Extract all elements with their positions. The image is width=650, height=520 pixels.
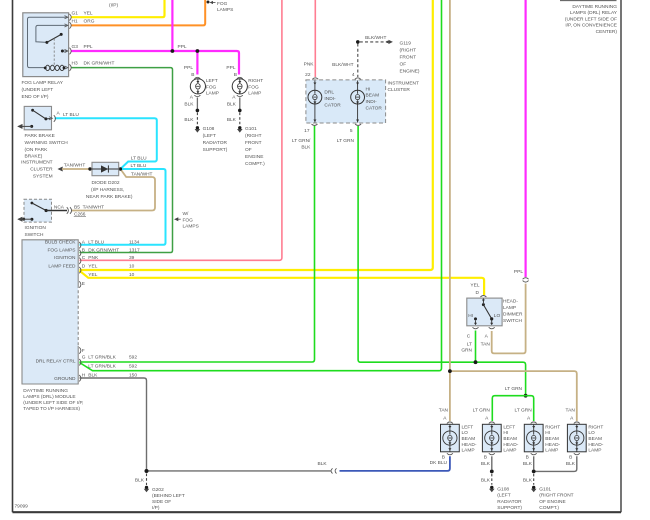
connector inline PPL/TAN: [523, 278, 529, 282]
svg-text:E: E: [82, 281, 85, 287]
svg-text:RIGHT: RIGHT: [545, 424, 560, 430]
svg-text:TAN/WHT: TAN/WHT: [64, 163, 86, 169]
wire LT BLU diode to module A: [80, 163, 166, 245]
svg-text:NCA: NCA: [54, 205, 65, 211]
ground G101 (headlamp): [531, 486, 574, 511]
svg-text:B: B: [526, 454, 529, 460]
svg-text:BEAM: BEAM: [588, 436, 602, 442]
svg-text:DK GRN/WHT: DK GRN/WHT: [84, 60, 115, 66]
connector C266 pin B5: [54, 205, 104, 218]
svg-text:LO: LO: [588, 430, 595, 436]
svg-text:G108: G108: [497, 486, 509, 492]
svg-text:G101: G101: [245, 126, 257, 132]
svg-text:LT BLU: LT BLU: [131, 155, 147, 161]
lamp LEFT HI BEAM HEADLAMP: [473, 408, 519, 461]
svg-text:DK GRN/WHT: DK GRN/WHT: [88, 247, 119, 253]
svg-text:22: 22: [305, 72, 311, 78]
svg-text:LT GRN: LT GRN: [515, 408, 533, 414]
ground G202: [144, 486, 185, 511]
wire BLK dashed to G202: [135, 474, 147, 486]
pin H1 connector: [65, 19, 95, 29]
svg-text:PPL: PPL: [178, 44, 187, 50]
wire LT GRN dimmer C to junction: [475, 331, 477, 363]
svg-text:SUPPORT): SUPPORT): [497, 505, 522, 511]
svg-text:LT GRN: LT GRN: [505, 386, 523, 392]
svg-text:WARNING SWITCH: WARNING SWITCH: [25, 140, 69, 146]
svg-text:H3: H3: [72, 60, 78, 66]
svg-text:PNK: PNK: [304, 62, 315, 68]
svg-text:IGNITION: IGNITION: [25, 225, 47, 231]
svg-text:1134: 1134: [129, 240, 140, 246]
svg-text:LT BLU: LT BLU: [131, 163, 147, 169]
svg-text:(I/P): (I/P): [109, 3, 118, 9]
svg-text:FRONT: FRONT: [400, 54, 417, 60]
svg-text:BLK: BLK: [318, 461, 328, 467]
svg-text:B: B: [484, 454, 487, 460]
svg-text:BEAM: BEAM: [462, 436, 476, 442]
svg-text:BEAM: BEAM: [366, 93, 380, 99]
svg-text:LT GRN/BLK: LT GRN/BLK: [88, 364, 116, 370]
node W/FOG LAMPS top annotation: [207, 1, 234, 13]
svg-text:1317: 1317: [129, 247, 140, 253]
node junction TAN lo-beam split: [448, 369, 452, 373]
label fog lamp relay: [22, 80, 64, 100]
switch S2 IGNITION SWITCH: [18, 199, 67, 222]
ground G108 (headlamp): [489, 486, 522, 511]
svg-text:TAN/WHT: TAN/WHT: [131, 172, 153, 178]
svg-text:LT GRN/BLK: LT GRN/BLK: [88, 355, 116, 361]
svg-text:BLK: BLK: [88, 372, 98, 378]
lamp DRL INDICATOR: [308, 81, 341, 123]
svg-text:PPL: PPL: [184, 65, 193, 71]
pin H3 connector: [65, 60, 115, 71]
splice BLK/DK BLU: [318, 461, 337, 474]
svg-text:TAN/WHT: TAN/WHT: [83, 205, 105, 211]
svg-text:I/P): I/P): [152, 505, 160, 511]
svg-text:LAMP: LAMP: [588, 448, 601, 454]
svg-text:LAMP: LAMP: [545, 448, 558, 454]
svg-text:C: C: [82, 255, 86, 261]
svg-text:YEL: YEL: [88, 264, 97, 270]
svg-text:LT GRN: LT GRN: [337, 138, 355, 144]
node junction LT GRN at dimmer C: [474, 360, 478, 364]
wire DK BLU left lo beam to splice: [340, 456, 450, 471]
svg-text:FOG: FOG: [206, 84, 217, 90]
svg-text:COMPT.): COMPT.): [245, 161, 265, 167]
svg-text:(UNDER LEFT SIDE OF: (UNDER LEFT SIDE OF: [565, 16, 617, 22]
svg-text:HEAD-: HEAD-: [503, 298, 518, 304]
wire LT GRN to right hi beam: [526, 396, 534, 421]
svg-text:39: 39: [129, 255, 135, 261]
ground G108 (fog): [195, 126, 228, 153]
svg-text:HEAD-: HEAD-: [462, 442, 477, 448]
svg-text:LAMP: LAMP: [503, 305, 516, 311]
module pin A: [79, 240, 139, 249]
wire YEL module D to dimmer switch: [80, 271, 485, 295]
cluster pin 4 connector: [355, 78, 361, 80]
wire LT GRN/BLK module G to top: [80, 0, 442, 371]
wire BLK/WHT cluster pin 4 to G119: [332, 35, 388, 78]
svg-text:C: C: [467, 334, 471, 340]
svg-text:5: 5: [350, 128, 353, 134]
svg-text:(LEFT: (LEFT: [203, 133, 216, 139]
svg-text:B: B: [569, 454, 572, 460]
svg-text:LO: LO: [494, 313, 501, 319]
wire LT BLU park brake to diode: [55, 112, 157, 169]
svg-text:DRL: DRL: [324, 90, 334, 96]
svg-text:BLK: BLK: [227, 102, 237, 108]
svg-text:D: D: [476, 290, 480, 296]
label DRL module: [23, 388, 83, 412]
svg-text:LEFT: LEFT: [503, 424, 515, 430]
svg-text:GROUND: GROUND: [54, 376, 76, 382]
svg-text:INDI-: INDI-: [324, 96, 336, 102]
node junction PPL x172: [171, 49, 175, 53]
svg-text:FOG LAMP RELAY: FOG LAMP RELAY: [22, 80, 64, 86]
svg-text:ORG: ORG: [84, 19, 95, 25]
svg-text:(UNDER LEFT SIDE OF I/P,: (UNDER LEFT SIDE OF I/P,: [23, 400, 83, 406]
wire YEL module D to top: [80, 0, 433, 270]
svg-text:(LEFT: (LEFT: [497, 493, 510, 499]
wire DK GRN/WHT relay H3 to module B: [72, 68, 173, 253]
svg-text:H1: H1: [72, 19, 78, 25]
svg-text:(RIGHT: (RIGHT: [400, 47, 417, 53]
svg-text:COMPT.): COMPT.): [539, 505, 559, 511]
lamp LEFT LO BEAM HEADLAMP: [439, 408, 477, 461]
svg-text:LAMP: LAMP: [248, 90, 261, 96]
svg-text:LAMP: LAMP: [462, 448, 475, 454]
svg-text:G1: G1: [72, 11, 79, 17]
module DRL MODULE box: [22, 240, 78, 384]
module pin D: [79, 264, 134, 278]
cluster box INSTRUMENT CLUSTER: [306, 80, 419, 123]
svg-text:YEL: YEL: [470, 283, 479, 289]
module pin H: [79, 372, 137, 381]
module pin C: [79, 255, 134, 264]
switch S3 HEADLAMP DIMMER SWITCH: [461, 283, 523, 354]
svg-text:BLK: BLK: [301, 145, 311, 151]
cluster pin 17 connector: [292, 124, 318, 151]
relay K1 FOG LAMP RELAY: [23, 13, 69, 77]
wire TAN connector to dimmer pin A: [492, 284, 526, 354]
lamp RIGHT HI BEAM HEADLAMP: [515, 408, 561, 461]
coil L1 of relay: [45, 65, 64, 68]
svg-text:DIMMER: DIMMER: [503, 311, 523, 317]
svg-text:10: 10: [129, 264, 135, 270]
svg-text:BLK: BLK: [184, 117, 194, 123]
svg-text:CLUSTER: CLUSTER: [30, 167, 53, 173]
svg-text:G3: G3: [72, 44, 79, 50]
svg-text:BEAM: BEAM: [545, 436, 559, 442]
svg-text:ENGINE): ENGINE): [400, 68, 420, 74]
svg-text:592: 592: [129, 364, 137, 370]
wire BLK splice to G202 junction: [147, 470, 332, 472]
diode D202: [88, 162, 122, 175]
svg-text:LT BLU: LT BLU: [63, 112, 79, 118]
svg-text:FOG: FOG: [183, 217, 194, 223]
svg-text:79099: 79099: [15, 504, 29, 510]
svg-text:BLK: BLK: [481, 478, 491, 484]
label ignition switch: [25, 225, 47, 238]
svg-text:BLK: BLK: [227, 117, 237, 123]
svg-text:BLK: BLK: [184, 102, 194, 108]
wire YEL relay G1 to top: [71, 0, 165, 17]
svg-text:PPL: PPL: [514, 269, 523, 275]
wire BLK right fog lamp to G101: [227, 98, 242, 126]
svg-text:W/: W/: [183, 211, 190, 217]
svg-text:HI: HI: [545, 430, 550, 436]
annotation W/ FOG LAMPS arrow: [174, 211, 199, 230]
svg-text:HI: HI: [503, 430, 508, 436]
svg-text:PNK: PNK: [88, 255, 99, 261]
svg-text:H: H: [82, 372, 86, 378]
pin G3 connector: [65, 44, 93, 55]
svg-text:INDI-: INDI-: [366, 99, 378, 105]
svg-text:LO: LO: [462, 430, 469, 436]
pin G1 connector: [65, 11, 93, 21]
svg-text:B5: B5: [74, 205, 80, 211]
switch S1 PARK BRAKE WARNING SWITCH: [18, 106, 61, 129]
svg-text:HEAD-: HEAD-: [588, 442, 603, 448]
lamp HI BEAM INDICATOR: [351, 81, 383, 123]
svg-text:FRONT: FRONT: [245, 140, 262, 146]
svg-text:NEAR PARK BRAKE): NEAR PARK BRAKE): [86, 194, 133, 200]
label diode D202: [86, 180, 133, 200]
svg-text:(BEHIND LEFT: (BEHIND LEFT: [152, 493, 185, 499]
svg-text:TAN: TAN: [481, 342, 491, 348]
svg-text:HEAD-: HEAD-: [545, 442, 560, 448]
cluster pin 22 connector: [312, 78, 318, 80]
svg-text:DK BLU: DK BLU: [430, 460, 448, 466]
svg-text:CENTER): CENTER): [596, 29, 618, 35]
annotation INSTRUMENT CLUSTER SYSTEM arrow: [21, 160, 90, 180]
svg-text:BULB CHECK: BULB CHECK: [45, 240, 76, 246]
svg-text:YEL: YEL: [88, 272, 97, 278]
svg-text:592: 592: [129, 355, 137, 361]
svg-text:DAYTIME RUNNING: DAYTIME RUNNING: [572, 4, 617, 10]
svg-text:BLK/WHT: BLK/WHT: [365, 35, 386, 41]
svg-text:HEAD-: HEAD-: [503, 442, 518, 448]
svg-text:ENGINE: ENGINE: [245, 154, 263, 160]
svg-text:PARK BRAKE: PARK BRAKE: [25, 133, 55, 139]
svg-text:BLK: BLK: [523, 478, 533, 484]
lamp E2 RIGHT FOG LAMP: [226, 65, 263, 101]
wire LT GRN cluster pin 5 to hi-beam net: [358, 126, 525, 396]
wire ORG relay H1 to top: [71, 0, 205, 25]
svg-text:HI: HI: [366, 86, 371, 92]
svg-text:DIODE D202: DIODE D202: [92, 180, 120, 186]
svg-text:LT: LT: [467, 342, 472, 348]
svg-text:G108: G108: [203, 126, 215, 132]
svg-text:F: F: [82, 348, 85, 354]
svg-text:LT BLU: LT BLU: [88, 240, 104, 246]
svg-text:LEFT: LEFT: [462, 424, 474, 430]
wire BLK module H to G202 junction: [80, 378, 147, 470]
svg-text:LAMPS (DRL) RELAY: LAMPS (DRL) RELAY: [570, 10, 618, 16]
svg-text:BRAKE): BRAKE): [25, 154, 43, 160]
svg-text:G119: G119: [400, 40, 412, 46]
wire PNK module C to top: [80, 0, 282, 260]
svg-text:10: 10: [129, 272, 135, 278]
svg-text:RADIATOR: RADIATOR: [497, 499, 522, 505]
node junction LT GRN hi-beam split: [505, 386, 528, 398]
svg-text:SWITCH: SWITCH: [503, 318, 522, 324]
svg-text:LAMPS: LAMPS: [183, 224, 199, 230]
svg-text:BLK: BLK: [135, 478, 145, 484]
svg-text:(I/P HARNESS,: (I/P HARNESS,: [91, 187, 124, 193]
svg-text:OF: OF: [400, 61, 407, 67]
svg-text:BLK: BLK: [566, 461, 576, 467]
svg-text:LAMPS (DRL) MODULE: LAMPS (DRL) MODULE: [23, 394, 75, 400]
wire TAN/WHT diode to ignition B5: [72, 169, 156, 211]
svg-text:LT GRN/: LT GRN/: [292, 138, 311, 144]
module pin G: [79, 355, 137, 370]
svg-text:RADIATOR: RADIATOR: [203, 140, 228, 146]
svg-text:FOG: FOG: [248, 84, 259, 90]
svg-text:G202: G202: [152, 487, 164, 493]
wire LT GRN/BLK module G to cluster pin 17: [80, 126, 315, 362]
svg-text:RIGHT: RIGHT: [248, 78, 263, 84]
svg-text:(RIGHT: (RIGHT: [245, 133, 262, 139]
svg-text:BLK: BLK: [523, 461, 533, 467]
svg-text:B: B: [191, 72, 194, 78]
svg-text:DRL RELAY CTRL: DRL RELAY CTRL: [36, 359, 76, 365]
svg-text:SIDE OF: SIDE OF: [152, 499, 171, 505]
svg-text:LT GRN: LT GRN: [473, 408, 491, 414]
svg-text:TAN: TAN: [439, 408, 449, 414]
svg-text:INSTRUMENT: INSTRUMENT: [21, 160, 53, 166]
svg-text:(ON PARK: (ON PARK: [25, 147, 49, 153]
svg-text:BLK/WHT: BLK/WHT: [332, 62, 353, 68]
svg-text:SWITCH: SWITCH: [25, 232, 44, 238]
svg-text:INSTRUMENT: INSTRUMENT: [388, 80, 420, 86]
svg-text:FOG LAMPS: FOG LAMPS: [48, 247, 76, 253]
svg-text:LAMP: LAMP: [503, 448, 516, 454]
svg-text:SYSTEM: SYSTEM: [33, 174, 53, 180]
wire TAN top to lo beams: [450, 0, 577, 421]
module pin B: [79, 247, 140, 256]
node junction PPL x197: [196, 49, 200, 53]
label DAYTIME RUNNING LAMPS RELAY (top right): [565, 4, 618, 35]
svg-text:(UNDER LEFT: (UNDER LEFT: [22, 87, 54, 93]
wire BLK right hi + right lo beams to G101: [523, 456, 577, 485]
svg-text:DAYTIME RUNNING: DAYTIME RUNNING: [23, 388, 68, 394]
module pin E: [79, 281, 85, 287]
svg-text:B: B: [82, 247, 85, 253]
wire LT GRN to left hi beam: [492, 396, 525, 421]
svg-text:SUPPORT): SUPPORT): [203, 147, 228, 153]
lamp E1 LEFT FOG LAMP: [184, 65, 219, 101]
svg-text:B: B: [442, 454, 445, 460]
svg-text:OF: OF: [245, 147, 252, 153]
wire BLK left fog lamp to G108: [184, 98, 199, 126]
svg-text:PPL: PPL: [226, 65, 235, 71]
label (I/P) cropped top text: [109, 3, 118, 9]
ground G101 (fog): [237, 126, 265, 167]
cluster pin 5 connector: [337, 124, 361, 144]
svg-text:OF ENGINE: OF ENGINE: [539, 499, 565, 505]
wire PNK top to cluster pin 22: [304, 0, 316, 78]
svg-text:I/P, ON CONVENIENCE: I/P, ON CONVENIENCE: [565, 23, 617, 29]
svg-text:G101: G101: [539, 486, 551, 492]
wire PPL DRL relay feed to connector: [514, 0, 526, 277]
svg-text:YEL: YEL: [84, 11, 93, 17]
svg-text:LAMP: LAMP: [206, 90, 219, 96]
svg-text:LAMPS: LAMPS: [217, 7, 233, 13]
svg-text:TAN: TAN: [566, 408, 576, 414]
node junction BLK at G202: [145, 469, 149, 473]
svg-text:GRN: GRN: [461, 348, 472, 354]
ground G119: [386, 40, 420, 75]
svg-text:BEAM: BEAM: [503, 436, 517, 442]
module pin F: [79, 347, 85, 354]
svg-text:FOG: FOG: [217, 1, 228, 7]
svg-text:G: G: [82, 355, 86, 361]
label park brake switch: [25, 133, 69, 160]
svg-text:TAPED TO I/P HARNESS): TAPED TO I/P HARNESS): [23, 406, 80, 412]
svg-text:IGNITION: IGNITION: [54, 255, 76, 261]
svg-text:B: B: [234, 72, 237, 78]
svg-text:CATOR: CATOR: [324, 103, 341, 109]
wire BLK left hi beam to G108: [481, 456, 494, 485]
svg-text:PPL: PPL: [84, 44, 93, 50]
svg-text:D: D: [82, 264, 86, 270]
svg-text:LAMP FEED: LAMP FEED: [48, 264, 76, 270]
lamp RIGHT LO BEAM HEADLAMP: [566, 408, 604, 461]
svg-text:CLUSTER: CLUSTER: [388, 87, 411, 93]
svg-text:CATOR: CATOR: [366, 105, 383, 111]
svg-text:BLK: BLK: [481, 461, 491, 467]
wire PPL fog lamp net: [71, 0, 239, 75]
svg-text:END OF I/P): END OF I/P): [22, 94, 49, 100]
svg-text:4: 4: [352, 72, 355, 78]
svg-text:150: 150: [129, 372, 137, 378]
svg-text:LEFT: LEFT: [206, 78, 218, 84]
svg-text:17: 17: [304, 128, 310, 134]
svg-text:RIGHT: RIGHT: [588, 424, 603, 430]
svg-text:(RIGHT FRONT: (RIGHT FRONT: [539, 493, 573, 499]
svg-text:HI: HI: [468, 313, 473, 319]
